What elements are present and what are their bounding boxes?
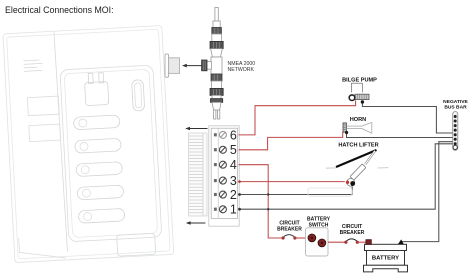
svg-text:2: 2 <box>230 188 237 202</box>
terminal 3 <box>219 177 226 184</box>
terminal 1 <box>219 206 226 213</box>
wire black terminal 1 to negative bus bar <box>239 144 453 209</box>
battery negative terminal <box>398 239 404 244</box>
terminal 2 <box>219 191 226 198</box>
svg-text:3: 3 <box>230 174 237 188</box>
hatch arm <box>336 150 377 167</box>
wire red terminal 3 to hatch lifter <box>239 181 345 183</box>
terminal 6 <box>219 131 226 138</box>
actuator rod <box>365 151 375 165</box>
arrow top left of terminal block <box>185 127 207 131</box>
wire black terminal 2 to hatch lifter <box>239 187 353 195</box>
arrow bottom left of terminal block <box>186 221 206 225</box>
terminal block <box>209 126 239 226</box>
power distribution module (faint outline drawing) <box>3 26 174 263</box>
hatch lifter <box>308 150 389 196</box>
wire red terminal 4 down to circuit breaker <box>239 165 284 238</box>
svg-text:Electrical Connections MOI:: Electrical Connections MOI: <box>5 5 114 15</box>
faint hatch base <box>308 188 352 196</box>
svg-text:BILGE PUMP: BILGE PUMP <box>342 78 377 84</box>
svg-text:BUS BAR: BUS BAR <box>444 105 467 111</box>
bilge pump <box>349 94 369 104</box>
svg-text:NEGATIVE: NEGATIVE <box>443 99 468 105</box>
svg-text:BREAKER: BREAKER <box>340 230 365 236</box>
svg-text:5: 5 <box>230 143 237 157</box>
circuit breaker 2 wiring <box>328 239 367 244</box>
svg-text:NETWORK: NETWORK <box>228 67 255 73</box>
wire black bilge pump to bus bar <box>362 103 452 133</box>
svg-text:6: 6 <box>230 128 237 142</box>
battery <box>364 239 408 272</box>
battery switch <box>306 228 329 256</box>
terminal 5 <box>219 146 226 153</box>
junction dots on red riser <box>267 193 269 195</box>
wire red terminal 6 to bilge pump <box>239 100 356 134</box>
svg-text:HATCH LIFTER: HATCH LIFTER <box>338 143 378 149</box>
circuit breaker 1 <box>282 235 306 240</box>
wire black horn to bus bar <box>347 133 453 138</box>
actuator cylinder <box>350 164 366 180</box>
terminal numbers <box>230 128 237 216</box>
battery positive terminal <box>366 240 371 245</box>
bilge pump bracket <box>351 83 362 92</box>
wire red terminal 5 to horn <box>239 132 343 150</box>
horn <box>343 122 372 134</box>
svg-text:BATTERY: BATTERY <box>372 255 399 261</box>
svg-text:BREAKER: BREAKER <box>277 227 302 233</box>
NMEA 2000 receptacle on module <box>165 54 180 77</box>
wire black battery to bus bar <box>402 142 453 242</box>
terminal screws (clamp squares) <box>214 133 217 211</box>
faint hinge dashes <box>326 167 389 170</box>
svg-text:HORN: HORN <box>350 117 366 123</box>
negative bus bar <box>453 112 458 151</box>
terminal 4 <box>219 161 226 168</box>
wire harness ridged strip <box>189 133 208 216</box>
NMEA 2000 tee connector cable <box>202 8 224 120</box>
svg-text:1: 1 <box>230 203 237 217</box>
pivot <box>347 178 355 186</box>
arrow to receptacle <box>182 64 205 68</box>
svg-text:4: 4 <box>230 158 237 172</box>
